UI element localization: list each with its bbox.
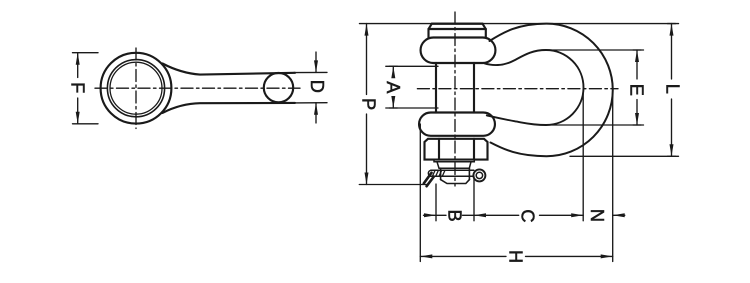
dimension A top extension line	[386, 65, 438, 67]
top ear (eye boss)	[421, 38, 496, 64]
eye inner ring inner circle	[110, 62, 162, 114]
pin point circle	[264, 73, 293, 102]
cotter pin bar bottom line	[431, 175, 474, 177]
dimension D bottom extension line	[294, 102, 327, 104]
extension line C/N boundary	[582, 93, 584, 221]
svg-text:A: A	[383, 81, 403, 94]
dimension D line with outside arrows	[315, 52, 317, 123]
dimension D top extension line	[294, 71, 327, 73]
cotter pin hatch strokes	[433, 171, 445, 177]
extension line B left	[435, 184, 437, 221]
dimension P arrowheads	[365, 24, 369, 185]
pin horizontal centerline	[95, 87, 300, 89]
dimension E top extension line	[543, 49, 644, 51]
cotter pin ring outer	[473, 169, 485, 181]
dimension E line	[633, 50, 641, 125]
svg-text:E: E	[627, 84, 647, 96]
svg-text:B: B	[444, 210, 464, 222]
bow inner profile	[484, 50, 584, 125]
dimension L line	[668, 24, 676, 157]
bolt head top edge	[432, 23, 483, 25]
hex nut	[425, 139, 488, 160]
hex nut right facet line	[473, 139, 475, 160]
cotter pin ring inner	[476, 172, 482, 178]
pin vertical centerline	[454, 12, 456, 186]
pin shank right line	[473, 63, 475, 113]
dimension E arrowheads	[635, 50, 639, 125]
pin shank bottom outline	[163, 103, 296, 113]
svg-text:F: F	[68, 82, 88, 93]
hex nut left facet line	[438, 139, 440, 160]
cotter pin bar left cap	[428, 170, 430, 176]
washer upper band	[434, 160, 474, 162]
dimension P bottom extension line	[359, 184, 427, 186]
extension line H left	[419, 124, 421, 262]
dimension E bottom extension line	[546, 124, 644, 126]
dimension P line	[366, 24, 368, 185]
dimension A line	[389, 66, 397, 108]
arrowhead B left (outside)	[424, 213, 625, 217]
eye vertical centerline	[135, 48, 137, 129]
bow outer profile	[490, 24, 613, 157]
dimension line B C N	[424, 214, 625, 216]
dimension A arrowheads	[391, 66, 395, 108]
dimension F arrowheads	[76, 53, 80, 124]
svg-text:N: N	[587, 209, 607, 222]
bow horizontal centerline	[417, 88, 618, 90]
top common extension line	[360, 23, 679, 25]
svg-text:H: H	[506, 250, 526, 263]
dimension F bottom extension line	[73, 123, 99, 125]
svg-text:L: L	[663, 84, 683, 94]
pin shank left line	[435, 63, 437, 113]
pin tail taper end	[441, 180, 470, 184]
extension line N right / H right	[612, 91, 614, 262]
bottom ear (eye boss)	[419, 113, 495, 136]
dimension L bottom extension line	[570, 155, 679, 157]
svg-text:D: D	[307, 80, 327, 93]
bolt head	[429, 24, 486, 38]
svg-text:C: C	[518, 209, 538, 222]
dimension A bottom extension line	[386, 107, 438, 109]
svg-text:P: P	[358, 98, 378, 110]
eye inner ring outer circle	[107, 60, 164, 117]
eye outer circle	[101, 53, 172, 124]
washer lower taper	[437, 162, 471, 168]
pin tail right line	[468, 168, 470, 179]
dimension F top extension line	[73, 52, 99, 54]
pin tail left line	[440, 168, 442, 179]
dimension D arrowheads	[314, 60, 318, 114]
dimension L arrowheads	[670, 24, 674, 157]
dimension H line	[420, 255, 612, 257]
extension line B right	[473, 178, 475, 221]
cotter pin split legs	[424, 173, 434, 187]
bolt head chamfer line	[429, 28, 486, 30]
cotter pin bar top line	[431, 169, 474, 171]
dimension H arrowheads	[420, 254, 612, 258]
dimension F line	[77, 53, 79, 124]
pin shank top outline	[163, 64, 296, 75]
